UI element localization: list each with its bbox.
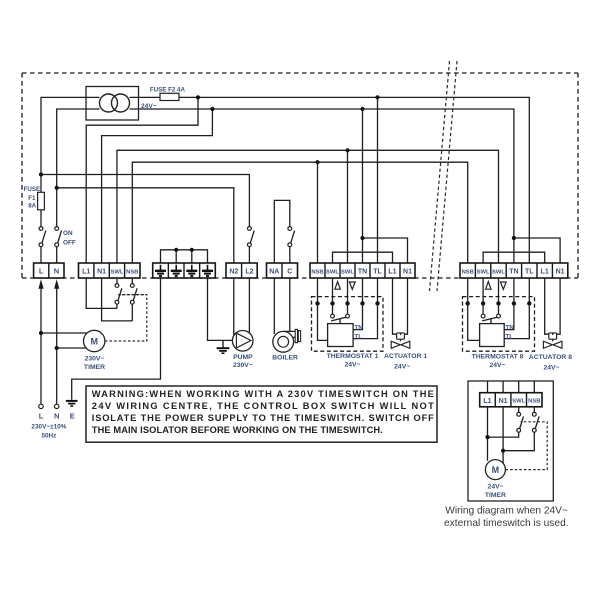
svg-text:ON: ON <box>63 230 73 237</box>
wire L1 to SWL contact <box>86 278 117 308</box>
terminal block L1 N1 SWL NSB <box>79 263 141 278</box>
marker down triangle thermostat 8 <box>500 282 506 289</box>
24V live rail (fused secondary, y=97.4) <box>179 97 529 263</box>
fuse F2 4A <box>139 87 186 101</box>
node: secondary neutral junction <box>210 107 214 111</box>
230V timer motor M <box>41 330 105 371</box>
svg-text:230V~: 230V~ <box>85 356 105 363</box>
svg-text:BOILER: BOILER <box>272 355 298 362</box>
node: fuse F2 output junction <box>196 95 200 99</box>
svg-text:PUMP: PUMP <box>233 354 253 361</box>
node: TN8/N1 junction <box>512 236 516 240</box>
marker down triangle thermostat 1 <box>349 282 355 289</box>
ground symbol pump <box>217 340 230 353</box>
external box top stub wires <box>488 381 535 393</box>
svg-text:50Hz: 50Hz <box>41 432 56 439</box>
svg-text:N1: N1 <box>403 269 412 276</box>
node: neutral rail tap on N wire <box>55 186 59 190</box>
svg-text:THERMOSTAT 8: THERMOSTAT 8 <box>472 354 524 361</box>
wire earth to mains E <box>72 278 161 400</box>
svg-text:external timeswitch is used.: external timeswitch is used. <box>444 518 569 529</box>
svg-text:NSB: NSB <box>462 269 474 275</box>
external N1 wire and branch <box>503 407 534 464</box>
wire earth to pump earth <box>208 278 233 340</box>
svg-text:TN: TN <box>509 269 518 276</box>
switch: external NSB contact <box>532 407 539 432</box>
transformer T1 <box>86 87 157 121</box>
svg-text:TL: TL <box>505 334 513 341</box>
switch: timer SWL contact <box>115 278 122 308</box>
wire NSB1 riser <box>317 162 319 263</box>
wire TN1 riser with N1 branch <box>363 109 408 263</box>
svg-text:SWL: SWL <box>326 269 339 275</box>
node: timer N tap <box>55 346 59 350</box>
svg-text:24V~: 24V~ <box>141 103 157 110</box>
svg-text:M: M <box>90 337 98 347</box>
terminal block N2 L2 <box>226 263 257 278</box>
svg-text:SWL: SWL <box>341 269 354 275</box>
thermostat 8 entry wires and pins <box>468 278 530 303</box>
wire transformer primary live <box>41 97 86 192</box>
switch: mains isolator N pole <box>55 227 76 263</box>
svg-text:OFF: OFF <box>63 240 76 247</box>
mains supply labels <box>31 412 74 440</box>
node: earth bus junction 3 <box>190 248 194 252</box>
wire SWL1 riser <box>347 150 349 263</box>
wires N2 L2 down to pump <box>234 278 250 336</box>
svg-text:TN: TN <box>354 324 363 331</box>
switch: external SWL contact <box>517 407 524 432</box>
svg-text:TIMER: TIMER <box>485 492 506 499</box>
thermostat 8 body <box>480 324 505 347</box>
wire N1 riser to secondary node <box>102 109 213 263</box>
svg-text:SWL: SWL <box>477 269 490 275</box>
terminal strip thermostat 8 <box>460 263 568 278</box>
wire NA loop over to boiler contact <box>274 200 290 263</box>
svg-text:24V WIRING CENTRE, THE CONTROL: 24V WIRING CENTRE, THE CONTROL BOX SWITC… <box>92 401 434 411</box>
wires NA C down to boiler <box>274 278 290 334</box>
wire L1 riser to fuse node <box>86 97 198 263</box>
earth symbol in cell 2 <box>171 265 182 276</box>
svg-text:F1: F1 <box>28 195 36 202</box>
svg-text:C: C <box>287 269 292 276</box>
ground symbol mains E <box>66 401 78 406</box>
actuator 1 motor <box>397 333 405 341</box>
earth terminal block <box>153 263 216 278</box>
thermostat 1 TN wire <box>353 303 362 329</box>
switch: mains isolator L pole <box>39 227 46 263</box>
svg-text:L2: L2 <box>245 269 253 276</box>
svg-text:FUSE: FUSE <box>24 186 41 193</box>
terminal strip external L1 N1 SWL NSB <box>480 393 542 407</box>
node: earth bus junction 2 <box>174 248 178 252</box>
svg-text:E: E <box>70 412 75 421</box>
switch: timer NSB contact <box>130 278 137 321</box>
svg-text:24V~: 24V~ <box>394 363 410 370</box>
svg-text:N1: N1 <box>556 269 565 276</box>
svg-text:24V~: 24V~ <box>543 365 559 372</box>
external timeswitch box <box>468 381 553 501</box>
svg-text:WARNING:WHEN WORKING WITH A 23: WARNING:WHEN WORKING WITH A 230V TIMESWI… <box>92 389 434 399</box>
svg-text:8A: 8A <box>28 202 36 209</box>
svg-text:L1: L1 <box>82 269 90 276</box>
terminal block NA C <box>267 263 298 278</box>
svg-text:SWL: SWL <box>492 269 505 275</box>
external L1 wire and branch <box>488 407 519 461</box>
diagonal break marks (thermostats 2-7 omitted) <box>430 61 458 291</box>
svg-text:TL: TL <box>354 334 362 341</box>
thermostat 8 NSB wire <box>468 303 480 340</box>
terminal block L N <box>34 263 64 278</box>
node: SWL rail tap thermostat 1 <box>345 148 349 152</box>
marker up triangle thermostat 1 <box>335 282 340 290</box>
svg-text:NSB: NSB <box>126 269 138 275</box>
dashed linkage external timer <box>506 422 548 470</box>
svg-text:THERMOSTAT 1: THERMOSTAT 1 <box>327 353 379 360</box>
wire SWL-L1 loop thermostat 1 <box>333 252 393 263</box>
node: live rail tap on L wire <box>39 172 43 176</box>
wire transformer primary neutral <box>57 109 86 227</box>
earth bus above block <box>161 250 208 263</box>
pump <box>232 331 253 369</box>
svg-text:L1: L1 <box>388 269 396 276</box>
node: 24V live rail tap TL1 <box>375 95 379 99</box>
svg-text:N1: N1 <box>97 269 106 276</box>
svg-text:N2: N2 <box>229 269 238 276</box>
node: TN1/N1 junction <box>360 236 364 240</box>
marker up triangle thermostat 8 <box>486 282 491 290</box>
switch: boiler relay contact <box>288 227 295 263</box>
node: NSB rail tap thermostat 1 <box>315 160 319 164</box>
thermostat 8 dashed box <box>463 297 535 352</box>
svg-text:L1: L1 <box>541 269 549 276</box>
svg-text:SWL: SWL <box>111 269 124 275</box>
actuator 8 wires <box>545 278 560 334</box>
wire N1 to NSB contact <box>102 278 133 321</box>
svg-text:Wiring diagram when 24V~: Wiring diagram when 24V~ <box>445 506 568 517</box>
svg-text:N: N <box>54 267 59 276</box>
thermostat 1 TL wire <box>353 303 377 338</box>
thermostat 1 dashed box <box>312 297 384 352</box>
dashed linkage contacts <box>118 294 147 296</box>
svg-text:230V~: 230V~ <box>233 362 253 369</box>
external 24V timer motor M <box>485 460 506 500</box>
svg-text:ACTUATOR 1: ACTUATOR 1 <box>384 353 427 360</box>
mains input N arrow and wire <box>54 279 59 408</box>
svg-text:24V~: 24V~ <box>489 362 505 369</box>
warning text box <box>86 386 437 442</box>
svg-text:TN: TN <box>358 269 367 276</box>
svg-text:L: L <box>39 412 44 421</box>
svg-text:24V~: 24V~ <box>488 484 504 491</box>
svg-text:SWL: SWL <box>512 399 525 405</box>
thermostat 8 TL wire <box>504 303 529 338</box>
svg-text:L: L <box>39 267 44 276</box>
thermostat 1 entry wires and pins <box>318 278 378 303</box>
thermostat 1 body <box>328 324 354 347</box>
svg-text:M: M <box>492 465 500 475</box>
svg-text:ISOLATE THE POWER SUPPLY TO TH: ISOLATE THE POWER SUPPLY TO THE TIMESWIT… <box>92 413 434 423</box>
switch: thermostat 1 contact <box>331 303 350 323</box>
wire TN8 branch to N1 <box>514 238 560 263</box>
actuator 1 valve <box>391 341 410 348</box>
control box enclosure dashed border <box>22 73 578 278</box>
svg-text:FUSE F2 4A: FUSE F2 4A <box>150 87 186 94</box>
terminal strip thermostat 1 <box>310 263 415 278</box>
230V neutral rail to N2 (y=187.8) <box>57 188 234 263</box>
svg-text:TN: TN <box>505 324 514 331</box>
SWL rail (y=150.3) <box>117 150 499 263</box>
thermostat 8 TN wire <box>504 303 514 329</box>
svg-text:TL: TL <box>525 269 534 276</box>
svg-text:NSB: NSB <box>311 269 323 275</box>
NSB rail (y=162.2) <box>132 162 467 263</box>
actuator 8 motor <box>549 333 557 341</box>
svg-text:L1: L1 <box>483 398 491 405</box>
svg-text:230V~±10%: 230V~±10% <box>31 424 66 431</box>
fuse F1 8A <box>24 186 45 227</box>
wire SWL-L1 loop thermostat 8 <box>483 252 545 263</box>
230V live rail to pump contact (y=174.5) <box>41 175 249 227</box>
svg-text:TIMER: TIMER <box>84 364 105 371</box>
earth symbol in cell 4 <box>202 265 213 276</box>
mains input L arrow and wire <box>38 279 43 408</box>
svg-text:N1: N1 <box>499 398 508 405</box>
switch: pump relay contact <box>248 227 255 263</box>
thermostat 1 NSB wire <box>318 303 328 340</box>
svg-text:TL: TL <box>373 269 382 276</box>
node: timer L tap <box>39 331 43 335</box>
actuator 8 valve <box>543 341 562 348</box>
svg-text:ACTUATOR 8: ACTUATOR 8 <box>529 354 572 361</box>
svg-text:NSB: NSB <box>528 399 540 405</box>
svg-text:THE MAIN ISOLATOR BEFORE WORKI: THE MAIN ISOLATOR BEFORE WORKING ON THE … <box>92 425 383 435</box>
switch: thermostat 8 contact <box>481 303 500 323</box>
svg-text:NA: NA <box>269 269 279 276</box>
earth symbol in cell 1 <box>155 265 166 276</box>
dashed linkage timer to contacts <box>105 295 147 341</box>
24V neutral rail (secondary, y=109) <box>139 109 514 263</box>
earth symbol in cell 3 <box>186 265 197 276</box>
node: 24V neutral rail tap TN1 <box>360 107 364 111</box>
actuator 1 wires <box>393 278 408 334</box>
wire TL1 riser <box>377 97 379 263</box>
boiler <box>272 329 300 361</box>
svg-text:24V~: 24V~ <box>344 361 360 368</box>
svg-text:N: N <box>54 412 59 421</box>
